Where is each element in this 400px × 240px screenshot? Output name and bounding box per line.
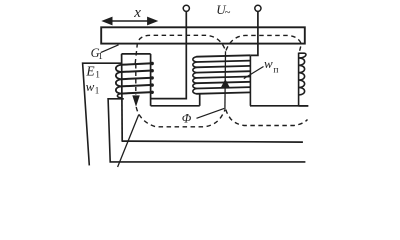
armature bar G1 — [101, 27, 305, 43]
core left limb — [122, 54, 151, 141]
svg-text:E: E — [85, 64, 95, 79]
svg-text:w: w — [264, 56, 273, 71]
winding wp on middle limb — [193, 55, 251, 94]
svg-text:1: 1 — [98, 51, 103, 61]
terminal T2 — [255, 5, 261, 11]
flux arrow up in middle limb — [221, 79, 230, 87]
flux dashed: down left limb — [135, 65, 137, 96]
leader line to cropped caption — [118, 115, 139, 168]
svg-text:п: п — [273, 66, 278, 76]
flux dashed: top bar right loop — [226, 35, 301, 52]
svg-text:Φ: Φ — [182, 111, 192, 125]
wire w1 top terminal — [83, 63, 122, 165]
svg-text:x: x — [133, 5, 141, 21]
displacement arrow x — [101, 17, 158, 26]
flux dashed: bottom right loop — [226, 110, 308, 126]
wire from T2 down to middle winding top — [251, 12, 258, 56]
flux arrow down in left limb — [132, 95, 140, 106]
winding w1 on left limb — [116, 63, 153, 98]
core middle limb edges — [199, 93, 201, 105]
core yoke bottom edge — [122, 141, 303, 142]
core right limb — [298, 53, 300, 106]
terminal T1 — [183, 5, 189, 11]
core window floor right — [250, 105, 308, 107]
wire from T1 down to left winding bottom — [151, 12, 187, 99]
wire w1 bottom terminal — [108, 99, 305, 162]
compensation winding on right limb — [299, 53, 306, 95]
svg-text:~: ~ — [225, 8, 231, 19]
svg-text:w: w — [86, 79, 95, 94]
flux dashed: bottom left loop — [136, 107, 225, 127]
svg-text:1: 1 — [95, 86, 100, 96]
flux dashed: top bar left loop — [135, 35, 225, 63]
svg-text:1: 1 — [95, 70, 100, 80]
core window floor left — [151, 105, 200, 107]
flux centerline middle limb — [224, 51, 227, 109]
